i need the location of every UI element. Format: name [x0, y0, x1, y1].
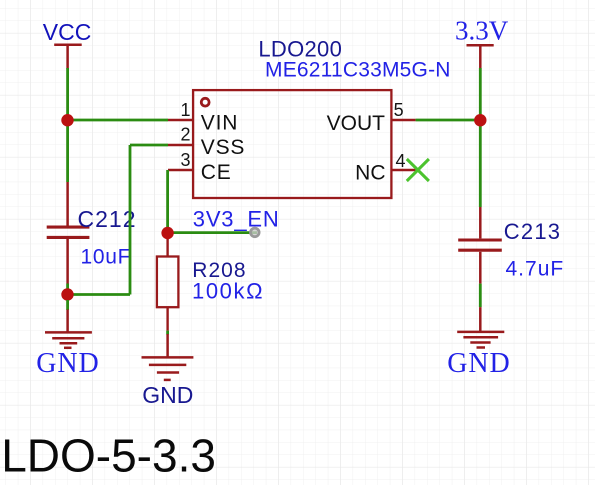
ground GND middle — [142, 334, 194, 380]
svg-text:5: 5 — [394, 100, 404, 120]
svg-text:100kΩ: 100kΩ — [192, 278, 264, 303]
wire VCC stem to node A — [66, 68, 69, 120]
svg-text:4: 4 — [396, 151, 406, 171]
pin 2 VSS stub — [168, 144, 193, 146]
wire node B to VSS riser — [68, 293, 130, 296]
wire 3.3V stem to node D — [479, 68, 482, 120]
power port 3.3V — [467, 45, 494, 68]
svg-text:VCC: VCC — [43, 19, 92, 45]
svg-text:VOUT: VOUT — [327, 112, 386, 135]
wire C213 to GND — [479, 284, 482, 308]
svg-text:CE: CE — [201, 161, 232, 184]
svg-text:4.7uF: 4.7uF — [506, 258, 565, 281]
wire node D down to C213 — [479, 120, 482, 207]
pin 4 NC stub — [391, 169, 415, 171]
wire VSS riser vertical — [129, 145, 132, 295]
resistor R208 — [157, 239, 179, 331]
svg-text:GND: GND — [142, 382, 193, 408]
svg-text:1: 1 — [180, 100, 190, 120]
junction node C — [161, 227, 173, 239]
wire node C to no-ERC ring — [168, 231, 257, 234]
svg-text:C212: C212 — [78, 206, 137, 232]
pin 1 VIN stub — [168, 119, 193, 121]
svg-text:ME6211C33M5G-N: ME6211C33M5G-N — [265, 59, 451, 82]
junction node B — [61, 288, 73, 300]
svg-text:3.3V: 3.3V — [455, 16, 509, 46]
svg-text:3: 3 — [180, 150, 190, 170]
pin 5 VOUT stub — [391, 119, 415, 121]
capacitor C212 — [47, 182, 90, 284]
junction node A — [61, 114, 73, 126]
ground GND left — [45, 310, 92, 348]
junction node D — [474, 114, 486, 126]
svg-text:GND: GND — [447, 348, 510, 379]
svg-text:NC: NC — [355, 162, 385, 185]
capacitor C213 — [458, 207, 502, 284]
no-connect X on pin 4 — [407, 159, 429, 181]
svg-text:LDO-5-3.3: LDO-5-3.3 — [1, 430, 216, 482]
wire CE riser vertical — [166, 170, 169, 233]
svg-text:VSS: VSS — [201, 136, 245, 159]
svg-text:VIN: VIN — [201, 111, 238, 134]
wire node A to pin 1 — [68, 119, 168, 122]
IC LDO200 body — [193, 90, 391, 198]
power port VCC — [54, 45, 81, 69]
wire VSS riser to pin 2 — [130, 144, 168, 147]
wire node B to GND — [66, 300, 69, 310]
no-ERC marker ring — [251, 228, 260, 237]
pin 3 CE stub — [168, 169, 193, 171]
wire node A down to C212 — [66, 120, 69, 182]
ground GND right — [457, 307, 504, 347]
svg-text:GND: GND — [36, 348, 99, 379]
svg-text:10uF: 10uF — [81, 246, 132, 269]
svg-text:3V3_EN: 3V3_EN — [193, 207, 280, 232]
wire pin 5 to node D — [416, 119, 481, 122]
wire R208 to GND — [166, 331, 169, 335]
svg-text:C213: C213 — [504, 219, 561, 244]
wire C212 to node B — [66, 284, 69, 295]
pin 1 indicator circle — [201, 98, 209, 106]
svg-text:2: 2 — [180, 125, 190, 145]
